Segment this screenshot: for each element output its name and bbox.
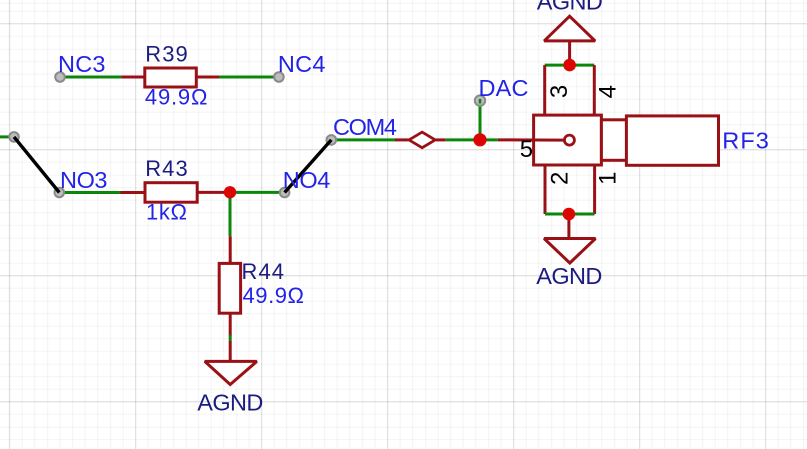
svg-text:NC4: NC4 (278, 51, 326, 77)
svg-text:5: 5 (520, 136, 533, 163)
svg-text:AGND: AGND (197, 389, 263, 415)
svg-text:NO3: NO3 (60, 167, 108, 193)
svg-text:AGND: AGND (536, 263, 602, 289)
svg-text:COM4: COM4 (333, 114, 397, 140)
svg-text:AGND: AGND (537, 0, 603, 15)
svg-text:49.9Ω: 49.9Ω (243, 283, 305, 308)
svg-text:R44: R44 (242, 259, 285, 284)
svg-text:4: 4 (595, 85, 622, 98)
svg-text:1: 1 (595, 171, 622, 184)
svg-text:NC3: NC3 (58, 51, 106, 77)
svg-text:R43: R43 (145, 156, 188, 181)
svg-text:NO4: NO4 (283, 167, 331, 193)
svg-text:R39: R39 (145, 42, 188, 67)
svg-text:49.9Ω: 49.9Ω (145, 84, 208, 109)
svg-text:2: 2 (546, 172, 573, 185)
svg-text:1kΩ: 1kΩ (146, 200, 187, 225)
svg-text:RF3: RF3 (722, 128, 769, 154)
svg-text:DAC: DAC (479, 75, 529, 101)
svg-text:3: 3 (546, 85, 573, 98)
